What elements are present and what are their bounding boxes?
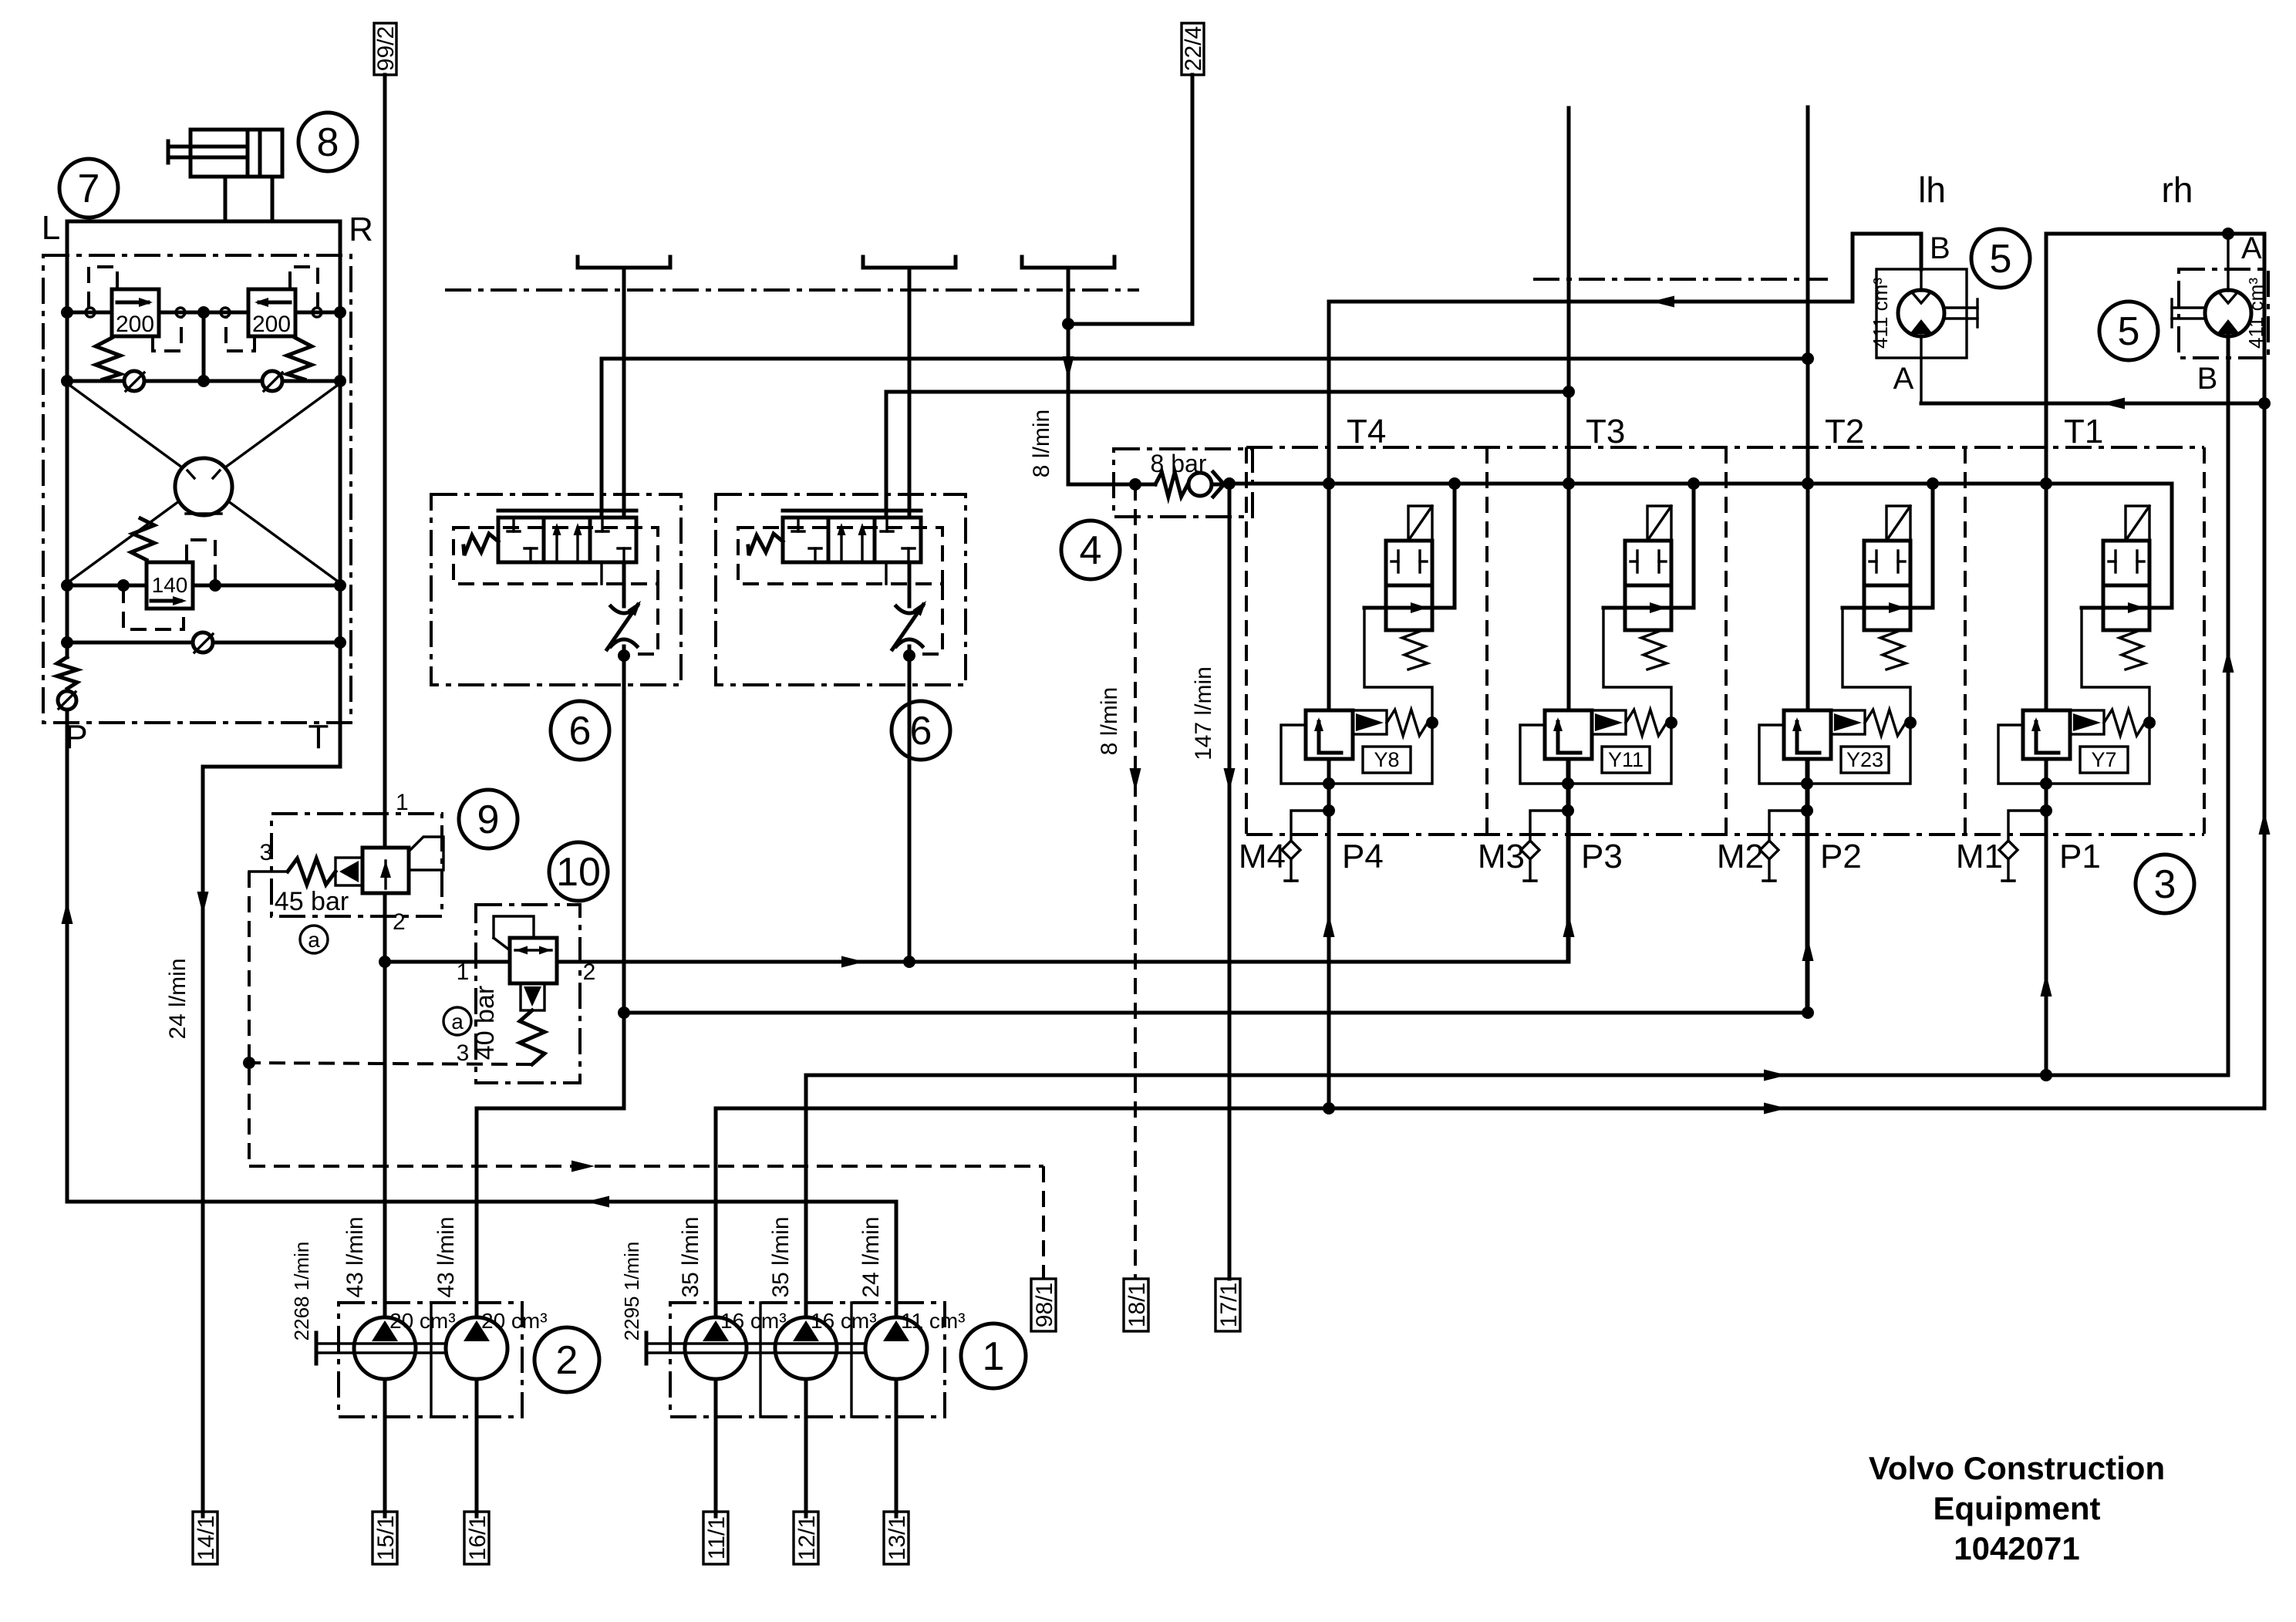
45 bar pilot loop — [409, 837, 443, 870]
40 bar solenoid triangle — [521, 983, 544, 1010]
svg-text:1042071: 1042071 — [1954, 1530, 2080, 1566]
pilot dashes left 200 valve — [89, 267, 117, 309]
svg-text:35 l/min: 35 l/min — [768, 1216, 794, 1297]
svg-text:11/1: 11/1 — [704, 1516, 730, 1560]
label box 17/1 — [1215, 1279, 1240, 1331]
Z path Y8 — [1281, 608, 1432, 784]
riser from bus to pilot valve Y11 — [1692, 484, 1696, 608]
label box Y8 — [1363, 747, 1411, 773]
svg-text:rh: rh — [2162, 170, 2193, 210]
svg-text:T2: T2 — [1825, 413, 1864, 450]
svg-text:2: 2 — [556, 1338, 578, 1383]
tank symbol 2 — [863, 266, 956, 270]
svg-text:Equipment: Equipment — [1934, 1490, 2101, 1526]
svg-text:16 cm³: 16 cm³ — [720, 1309, 787, 1333]
measuring port hook M3 — [1530, 811, 1568, 841]
svg-text:16 cm³: 16 cm³ — [811, 1309, 877, 1333]
valve 6-1 middle cell arrows — [555, 528, 558, 559]
svg-text:3: 3 — [2154, 862, 2176, 907]
spring below pilot valve Y7 — [2119, 630, 2145, 669]
dashed pilot to 98/1 — [249, 1165, 1043, 1168]
Z path Y23 — [1759, 608, 1910, 784]
dash-dot segment near lh — [1533, 278, 1828, 281]
valve 6-1 pilot dashed box — [453, 528, 658, 584]
cylinder 8 body — [190, 130, 282, 177]
svg-text:M4: M4 — [1239, 838, 1286, 875]
steering unit right vertical — [339, 221, 342, 767]
svg-text:P2: P2 — [1820, 838, 1862, 875]
wire cylinder right to box — [271, 177, 275, 221]
line y=759 — [67, 584, 147, 588]
X diagonal 2 — [67, 383, 340, 583]
solenoid of Y8 — [1408, 506, 1432, 541]
section divider dashed 3 — [1725, 447, 1728, 835]
label box 11/1 — [703, 1512, 728, 1564]
svg-text:L: L — [42, 209, 60, 247]
section divider dashed 2 — [1485, 447, 1489, 835]
45 bar spring — [288, 858, 335, 885]
pump group 2 dash-dot box — [339, 1303, 522, 1417]
circled a marker 40bar — [443, 1007, 471, 1035]
wire pump g1-2 riser — [804, 1075, 808, 1516]
svg-text:5: 5 — [2118, 309, 2140, 354]
svg-text:Volvo Construction: Volvo Construction — [1869, 1450, 2165, 1486]
pump group 2 shaft — [316, 1342, 447, 1344]
wire cylinder left to box — [224, 177, 228, 221]
valve 6-2 supply riser — [885, 392, 888, 518]
svg-text:147 l/min: 147 l/min — [1191, 666, 1216, 760]
svg-text:T3: T3 — [1586, 413, 1625, 450]
40 bar spring — [520, 1010, 544, 1064]
wire tank2 line continues down to 40bar output — [908, 685, 912, 962]
svg-text:18/1: 18/1 — [1124, 1283, 1150, 1327]
svg-text:M1: M1 — [1956, 838, 2003, 875]
wire tank1 down — [622, 268, 626, 518]
svg-text:140: 140 — [152, 573, 188, 597]
rh motor — [2205, 290, 2251, 336]
svg-text:8 l/min: 8 l/min — [1097, 687, 1122, 755]
45 bar port3 wire — [249, 870, 288, 872]
svg-text:7: 7 — [78, 167, 100, 211]
reducing valve Y8 spring — [1387, 710, 1428, 736]
8 bar check ball — [1188, 473, 1212, 496]
svg-text:M2: M2 — [1717, 838, 1764, 875]
valve 6-2 spool body — [783, 518, 921, 562]
wire tank1 line corner to pump group2 — [477, 1107, 624, 1111]
svg-text:3: 3 — [457, 1040, 470, 1066]
label box Y11 — [1602, 747, 1650, 773]
section divider dashed 4 — [1964, 447, 1967, 835]
valve 6-1 top parallel line — [498, 509, 636, 513]
label box Y23 — [1841, 747, 1889, 773]
lh motor shaft — [1944, 306, 1977, 309]
cylinder 8 piston — [246, 130, 250, 177]
label box 18/1 — [1124, 1279, 1148, 1331]
valve 6-1 right cell symbols — [601, 518, 603, 531]
measuring port hook M1 — [2008, 811, 2046, 841]
svg-text:43 l/min: 43 l/min — [342, 1216, 368, 1297]
svg-text:22/4: 22/4 — [1181, 26, 1206, 71]
wire pump g1-3 riser — [895, 1202, 899, 1516]
svg-text:4: 4 — [1080, 528, 1102, 573]
wire 22/4 to tank3 node — [1068, 322, 1192, 326]
valve 6-1 spring — [464, 534, 498, 555]
svg-text:T: T — [308, 718, 329, 756]
through line pilot valve Y7 — [2082, 606, 2172, 610]
directional valve 6-1 dash-dot box — [431, 494, 681, 685]
reducing valve Y23 spring — [1865, 710, 1906, 736]
svg-text:A: A — [1893, 362, 1914, 396]
valve 6-2 middle cell arrows — [840, 528, 842, 559]
wire 99/2 line lower part — [383, 893, 387, 1516]
svg-text:411 cm³: 411 cm³ — [2244, 278, 2267, 349]
svg-text:5: 5 — [1990, 237, 2012, 282]
svg-text:17/1: 17/1 — [1216, 1283, 1242, 1327]
through line pilot valve Y8 — [1364, 606, 1455, 610]
reducing valve Y11 solenoid triangle — [1592, 710, 1626, 734]
circle 6 marker 1 — [551, 701, 609, 760]
wire pump2-2 riser pre — [475, 1108, 479, 1516]
svg-text:Y23: Y23 — [1846, 748, 1883, 771]
spring below pilot valve Y8 — [1402, 630, 1428, 669]
svg-text:6: 6 — [569, 709, 592, 754]
P3 vertical below valve — [1566, 759, 1570, 962]
svg-text:6: 6 — [910, 709, 932, 754]
pilot valve Y23 closed symbols — [1875, 551, 1877, 572]
T2 vertical line — [1806, 107, 1810, 1013]
rh motor dash-dot box — [2179, 269, 2268, 358]
label box Y7 — [2080, 747, 2128, 773]
spring of 140 valve — [131, 518, 154, 560]
svg-text:45 bar: 45 bar — [275, 887, 349, 916]
pilot 2/2 valve Y7 body — [2103, 541, 2149, 630]
svg-text:20 cm³: 20 cm³ — [481, 1309, 548, 1333]
svg-text:1: 1 — [983, 1334, 1005, 1379]
reducing valve Y7 spring — [2104, 710, 2145, 736]
X diagonal 1 — [67, 383, 340, 583]
P riser through reducing valve Y11 — [1562, 777, 1574, 790]
valve 6-1 supply riser — [600, 359, 604, 518]
wire tank1 line continues down — [622, 685, 626, 1108]
label box 12/1 — [794, 1512, 818, 1564]
label box 99/2 — [374, 23, 396, 75]
8 bar outlet wire y=627 bus — [1212, 483, 1229, 487]
svg-text:24 l/min: 24 l/min — [165, 958, 190, 1039]
label box 98/1 — [1031, 1279, 1056, 1331]
svg-text:M3: M3 — [1478, 838, 1525, 875]
through line pilot valve Y11 — [1603, 606, 1694, 610]
wire T1 top loop — [2046, 232, 2264, 236]
spring check on P branch — [57, 657, 77, 689]
lh motor box — [1876, 269, 1967, 358]
svg-text:Y8: Y8 — [1374, 748, 1399, 771]
wire P port down — [66, 723, 69, 1202]
svg-text:B: B — [1930, 231, 1950, 265]
svg-text:20 cm³: 20 cm³ — [389, 1309, 456, 1333]
P1 vertical below valve — [2045, 759, 2048, 1075]
circle 8 — [298, 113, 357, 171]
pilot 2/2 valve Y23 body — [1864, 541, 1910, 630]
spring of left 200 valve — [96, 338, 120, 379]
pressure reducing valve Y23 body — [1784, 710, 1831, 759]
svg-text:P4: P4 — [1342, 838, 1384, 875]
dash-dot M P line — [1246, 833, 2204, 836]
rh motor shaft — [2172, 306, 2205, 309]
label box 13/1 — [884, 1512, 909, 1564]
wire pump line y=1437 to vertical right — [716, 1107, 2264, 1111]
svg-text:lh: lh — [1918, 170, 1946, 210]
Z path Y7 — [1998, 608, 2149, 784]
svg-text:3: 3 — [260, 840, 273, 865]
circle 10 marker — [549, 842, 608, 901]
label box 15/1 — [373, 1512, 397, 1564]
svg-text:R: R — [349, 211, 373, 248]
40 bar pilot loop — [494, 916, 534, 938]
P riser through reducing valve Y8 — [1323, 777, 1335, 790]
circle 3 marker — [2136, 855, 2194, 913]
svg-text:15/1: 15/1 — [373, 1516, 399, 1560]
pump group 1 dash-dot box — [670, 1303, 945, 1417]
45 bar valve dash-dot box — [271, 814, 442, 916]
40 bar valve body — [510, 938, 557, 983]
svg-text:99/2: 99/2 — [373, 26, 399, 71]
lh motor — [1898, 290, 1944, 336]
steering motor circle — [175, 458, 232, 515]
solenoid of Y7 — [2126, 506, 2149, 541]
valve 6-2 right cell symbols — [885, 518, 888, 531]
svg-text:B: B — [2197, 362, 2218, 396]
svg-text:Y7: Y7 — [2091, 748, 2116, 771]
pilot valve Y7 closed symbols — [2114, 551, 2116, 572]
svg-text:A: A — [2241, 231, 2262, 265]
wire y=1313 to P2 — [624, 1011, 1808, 1015]
svg-text:24 l/min: 24 l/min — [858, 1216, 884, 1297]
left vertical lower part — [66, 642, 69, 657]
spring below pilot valve Y23 — [1880, 630, 1906, 669]
valve 6-2 spring — [748, 534, 783, 555]
riser from bus to pilot valve Y8 — [1453, 484, 1457, 608]
lh motor B wire — [1920, 269, 1922, 291]
T3 vertical line — [1567, 108, 1571, 962]
circle 5 marker rh — [2099, 302, 2158, 360]
valve 6-2 flow control on tank line — [908, 562, 912, 606]
T4 vertical line — [1327, 302, 1331, 1108]
measuring port hook M2 — [1769, 811, 1807, 841]
circle 4 marker — [1061, 521, 1120, 579]
P riser through reducing valve Y7 — [2040, 777, 2052, 790]
steering unit outer box top — [67, 220, 340, 224]
lh motor A wire — [1920, 336, 1922, 403]
valve 6-1 spool body — [498, 518, 636, 562]
relief valve 140 — [147, 562, 193, 609]
tank symbol 1 — [578, 266, 670, 270]
svg-text:411 cm³: 411 cm³ — [1869, 278, 1892, 349]
pressure reducing valve Y7 body — [2023, 710, 2070, 759]
pump 11cm3 — [865, 1317, 927, 1379]
svg-text:T1: T1 — [2064, 413, 2103, 450]
svg-text:35 l/min: 35 l/min — [678, 1216, 703, 1297]
circle 9 marker — [459, 790, 518, 848]
pilot 2/2 valve Y11 body — [1625, 541, 1671, 630]
45 bar valve body — [362, 848, 409, 893]
pilot valve Y8 closed symbols — [1397, 551, 1399, 572]
svg-text:P1: P1 — [2059, 838, 2101, 875]
svg-text:1: 1 — [396, 790, 409, 815]
svg-text:40 bar: 40 bar — [470, 986, 500, 1060]
pilot dashes 140 valve — [187, 540, 215, 582]
wire tank2 down — [908, 268, 912, 518]
riser from bus to pilot valve Y7 — [2170, 484, 2174, 608]
svg-text:43 l/min: 43 l/min — [433, 1216, 459, 1297]
wire pump line y=1394 to rh motor B — [806, 1074, 2228, 1077]
reducing valve Y8 solenoid triangle — [1353, 710, 1387, 734]
wire T return elbow — [203, 767, 340, 1516]
svg-text:2295 1/min: 2295 1/min — [620, 1242, 643, 1341]
circle 5 marker lh — [1971, 229, 2030, 288]
label box 16/1 — [464, 1512, 489, 1564]
line y=833 with check valve — [67, 641, 340, 645]
cylinder 8 rod — [168, 145, 248, 149]
8 bar valve dash-dot box — [1114, 449, 1253, 517]
svg-text:T4: T4 — [1347, 413, 1386, 450]
svg-text:a: a — [308, 928, 320, 952]
wire 147 l/min down — [1228, 484, 1232, 1279]
wire 40bar port1 from 99/2 junction — [385, 960, 510, 964]
dash-dot T label line — [1246, 446, 2204, 449]
pilot 2/2 valve Y8 body — [1386, 541, 1432, 630]
wire lh A to right vertical y=523 — [1921, 402, 2264, 406]
upper port line y=405 — [67, 311, 112, 315]
pump 16cm3 no2 — [775, 1317, 837, 1379]
svg-text:2268 1/min: 2268 1/min — [290, 1242, 313, 1341]
svg-text:14/1: 14/1 — [194, 1516, 219, 1560]
pump group 1 shaft — [646, 1342, 866, 1344]
svg-text:8 l/min: 8 l/min — [1029, 410, 1054, 477]
svg-text:10: 10 — [556, 850, 601, 895]
pump 16cm3 no1 — [685, 1317, 747, 1379]
svg-text:a: a — [451, 1010, 464, 1034]
through line pilot valve Y23 — [1843, 606, 1933, 610]
wire 99/2 down to 45bar valve — [383, 75, 387, 848]
reducing valve Y7 solenoid triangle — [2070, 710, 2104, 734]
svg-text:9: 9 — [477, 798, 500, 842]
wire pump g1-1 riser — [714, 1108, 718, 1516]
relief valve 200 left — [112, 289, 159, 336]
section divider dashed 5 — [2203, 447, 2206, 835]
45 bar solenoid triangle — [335, 858, 362, 885]
solenoid of Y11 — [1647, 506, 1671, 541]
pump 20cm3 no1 — [354, 1317, 416, 1379]
svg-text:11 cm³: 11 cm³ — [901, 1309, 966, 1333]
svg-text:98/1: 98/1 — [1032, 1283, 1057, 1327]
directional valve 6-2 dash-dot box — [716, 494, 966, 685]
svg-text:12/1: 12/1 — [794, 1516, 820, 1560]
8 bar spring — [1155, 472, 1188, 497]
spring below pilot valve Y11 — [1641, 630, 1667, 669]
valve 6-1 left cell symbols — [512, 518, 514, 531]
pump 20cm3 no2 — [446, 1317, 507, 1379]
check valve left on y=494 — [124, 371, 144, 391]
svg-text:200: 200 — [252, 312, 291, 337]
circle 2 marker — [534, 1327, 599, 1392]
valve 6-2 left cell symbols — [797, 518, 799, 531]
steering unit left vertical — [66, 221, 69, 656]
wire P feed horizontal y=1558 — [67, 1200, 896, 1204]
reducing valve Y11 spring — [1626, 710, 1667, 736]
wire 22/4 down — [1191, 75, 1195, 324]
node dots upper line — [61, 306, 73, 319]
pilot dashes right 200 valve — [290, 267, 318, 309]
tank symbol 3 — [1022, 266, 1114, 270]
8 bar inlet wire — [1068, 483, 1155, 487]
P riser through reducing valve Y23 — [1801, 777, 1813, 790]
dash-dot boundary above tanks — [445, 288, 1139, 292]
svg-text:200: 200 — [116, 312, 154, 337]
reducing valve Y23 solenoid triangle — [1831, 710, 1865, 734]
dashed pilot vertical x=323 — [248, 872, 251, 1166]
solenoid of Y23 — [1886, 506, 1910, 541]
svg-text:Y11: Y11 — [1608, 748, 1644, 771]
40 bar valve dash-dot box — [476, 905, 580, 1083]
check valve right on y=494 — [262, 371, 282, 391]
section divider dashed 1 — [1245, 447, 1248, 835]
pressure reducing valve Y8 body — [1306, 710, 1353, 759]
wire T4 top to lh motor B — [1329, 234, 1921, 302]
wire tank3 down to 8bar valve — [1067, 268, 1070, 484]
40 bar pilot dashed to port 3 — [249, 1063, 532, 1064]
measuring port hook M4 — [1291, 811, 1329, 841]
spring of right 200 valve — [287, 338, 312, 379]
pressure reducing valve Y11 body — [1545, 710, 1592, 759]
wire valve6-2 supply corner to T3 line y=512 — [886, 390, 1569, 394]
wire 8 l/min dashed down — [1134, 484, 1137, 1279]
circle 7 — [59, 159, 118, 218]
wire valve6-1 supply corner to T2 line y=465 — [602, 357, 1808, 361]
svg-text:16/1: 16/1 — [465, 1516, 491, 1560]
node dots y=494 — [61, 375, 73, 387]
svg-text:8: 8 — [317, 120, 339, 165]
check line y=494 — [67, 379, 340, 383]
svg-text:2: 2 — [393, 909, 406, 935]
T1 vertical line — [2045, 234, 2048, 1075]
Z path Y11 — [1520, 608, 1671, 784]
label box 22/4 — [1182, 23, 1204, 75]
P2 vertical below valve — [1805, 759, 1809, 1013]
valve 6-2 top parallel line — [783, 509, 921, 513]
svg-text:P3: P3 — [1581, 838, 1623, 875]
steering unit 7 dash-dot boundary — [43, 255, 351, 723]
circle 6 marker 2 — [892, 701, 950, 760]
valve 6-1 flow control on tank line — [622, 562, 626, 606]
rh motor A wire — [2227, 234, 2229, 291]
rh motor B wire — [2227, 336, 2230, 1075]
wire 40bar port2 to P3 — [557, 960, 1569, 964]
riser from bus to pilot valve Y23 — [1931, 484, 1935, 608]
circle 1 marker — [961, 1324, 1026, 1388]
label box 14/1 — [193, 1512, 217, 1564]
circled a marker 45bar — [300, 926, 328, 953]
valve 6-2 pilot dashed box — [738, 528, 942, 584]
pilot valve Y11 closed symbols — [1636, 551, 1638, 572]
wire right vertical x=2936 — [2263, 234, 2267, 1108]
center vertical node to check line — [202, 312, 206, 381]
relief valve 200 right — [248, 289, 295, 336]
svg-text:13/1: 13/1 — [885, 1516, 910, 1560]
